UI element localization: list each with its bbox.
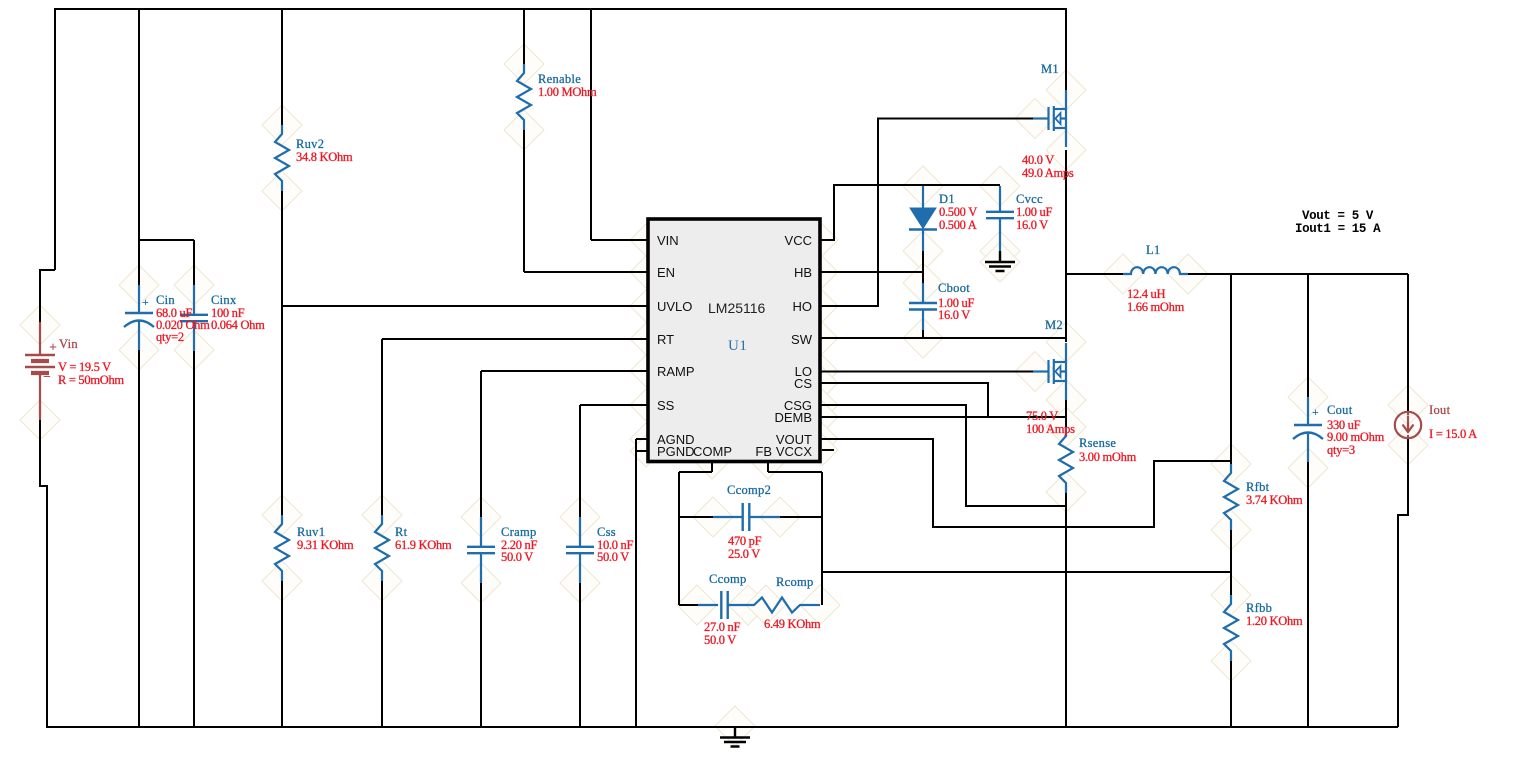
svg-text:27.0 nF: 27.0 nF	[704, 620, 740, 634]
svg-text:50.0 V: 50.0 V	[501, 550, 533, 564]
svg-text:Rsense: Rsense	[1079, 436, 1116, 450]
svg-text:+: +	[49, 341, 57, 356]
svg-text:1.00 MOhm: 1.00 MOhm	[538, 85, 597, 99]
svg-text:Rfbt: Rfbt	[1246, 480, 1270, 494]
svg-text:6.49 KOhm: 6.49 KOhm	[764, 617, 821, 631]
svg-text:R = 50mOhm: R = 50mOhm	[58, 373, 124, 387]
svg-text:Css: Css	[597, 525, 616, 539]
svg-text:3.74 KOhm: 3.74 KOhm	[1246, 493, 1303, 507]
svg-text:Rfbb: Rfbb	[1246, 601, 1272, 615]
svg-text:34.8 KOhm: 34.8 KOhm	[296, 150, 353, 164]
svg-text:M1: M1	[1041, 62, 1059, 76]
svg-text:75.0 V: 75.0 V	[1026, 409, 1058, 423]
svg-text:9.31 KOhm: 9.31 KOhm	[297, 538, 354, 552]
svg-text:Vout = 5 V: Vout = 5 V	[1302, 209, 1374, 223]
svg-text:D1: D1	[939, 192, 955, 206]
svg-text:Cboot: Cboot	[938, 281, 970, 295]
svg-text:RT: RT	[657, 332, 674, 347]
svg-text:SS: SS	[657, 398, 675, 413]
svg-text:U1: U1	[728, 338, 747, 354]
svg-text:Cout: Cout	[1327, 403, 1353, 417]
svg-text:40.0 V: 40.0 V	[1022, 153, 1054, 167]
svg-text:Cramp: Cramp	[501, 525, 537, 539]
svg-text:PGND: PGND	[657, 444, 695, 459]
svg-text:DEMB: DEMB	[774, 410, 812, 425]
svg-text:+: +	[1312, 405, 1319, 419]
svg-text:L1: L1	[1146, 243, 1161, 257]
svg-text:50.0 V: 50.0 V	[597, 550, 629, 564]
svg-text:0.500 A: 0.500 A	[939, 218, 977, 232]
svg-text:VCC: VCC	[785, 233, 812, 248]
svg-text:Iout: Iout	[1429, 403, 1451, 417]
svg-text:100 Amps: 100 Amps	[1026, 422, 1075, 436]
svg-text:16.0 V: 16.0 V	[938, 308, 970, 322]
svg-text:16.0 V: 16.0 V	[1016, 218, 1048, 232]
svg-text:HB: HB	[794, 265, 812, 280]
svg-text:Ruv1: Ruv1	[297, 525, 325, 539]
svg-text:FB: FB	[755, 444, 772, 459]
svg-text:61.9 KOhm: 61.9 KOhm	[395, 538, 452, 552]
svg-text:Cvcc: Cvcc	[1016, 192, 1043, 206]
svg-text:HO: HO	[793, 299, 813, 314]
svg-text:Ruv2: Ruv2	[296, 137, 324, 151]
svg-text:Cinx: Cinx	[211, 293, 237, 307]
svg-text:VCCX: VCCX	[776, 444, 812, 459]
svg-text:Vin: Vin	[59, 337, 78, 351]
svg-text:−: −	[43, 370, 51, 385]
svg-text:UVLO: UVLO	[657, 299, 692, 314]
svg-text:Renable: Renable	[538, 72, 581, 86]
svg-text:25.0 V: 25.0 V	[728, 547, 760, 561]
svg-text:Rt: Rt	[395, 525, 408, 539]
svg-text:0.064 Ohm: 0.064 Ohm	[211, 318, 265, 332]
svg-text:VIN: VIN	[657, 233, 679, 248]
svg-text:V = 19.5 V: V = 19.5 V	[58, 360, 111, 374]
svg-text:qty=3: qty=3	[1327, 443, 1355, 457]
svg-text:12.4 uH: 12.4 uH	[1127, 287, 1165, 301]
svg-text:9.00 mOhm: 9.00 mOhm	[1327, 430, 1385, 444]
svg-text:COMP: COMP	[693, 444, 732, 459]
svg-text:49.0 Amps: 49.0 Amps	[1022, 166, 1074, 180]
svg-text:Ccomp2: Ccomp2	[727, 483, 771, 497]
svg-text:CS: CS	[794, 376, 812, 391]
svg-text:+: +	[142, 295, 149, 309]
svg-text:RAMP: RAMP	[657, 364, 695, 379]
svg-text:0.500 V: 0.500 V	[939, 205, 977, 219]
svg-text:EN: EN	[657, 265, 675, 280]
svg-text:1.20 KOhm: 1.20 KOhm	[1246, 614, 1303, 628]
svg-text:Iout1 = 15 A: Iout1 = 15 A	[1295, 222, 1381, 236]
svg-text:470 pF: 470 pF	[728, 534, 762, 548]
svg-text:3.00 mOhm: 3.00 mOhm	[1079, 450, 1137, 464]
svg-text:M2: M2	[1045, 318, 1063, 332]
svg-text:qty=2: qty=2	[156, 330, 184, 344]
svg-text:LM25116: LM25116	[708, 300, 766, 316]
svg-text:1.00 uF: 1.00 uF	[1016, 205, 1052, 219]
svg-text:Cin: Cin	[156, 293, 175, 307]
svg-text:50.0 V: 50.0 V	[704, 633, 736, 647]
svg-text:Ccomp: Ccomp	[709, 572, 747, 586]
svg-text:Rcomp: Rcomp	[776, 575, 814, 589]
svg-text:1.66 mOhm: 1.66 mOhm	[1127, 300, 1185, 314]
svg-text:I = 15.0 A: I = 15.0 A	[1429, 427, 1477, 441]
svg-text:SW: SW	[791, 332, 813, 347]
